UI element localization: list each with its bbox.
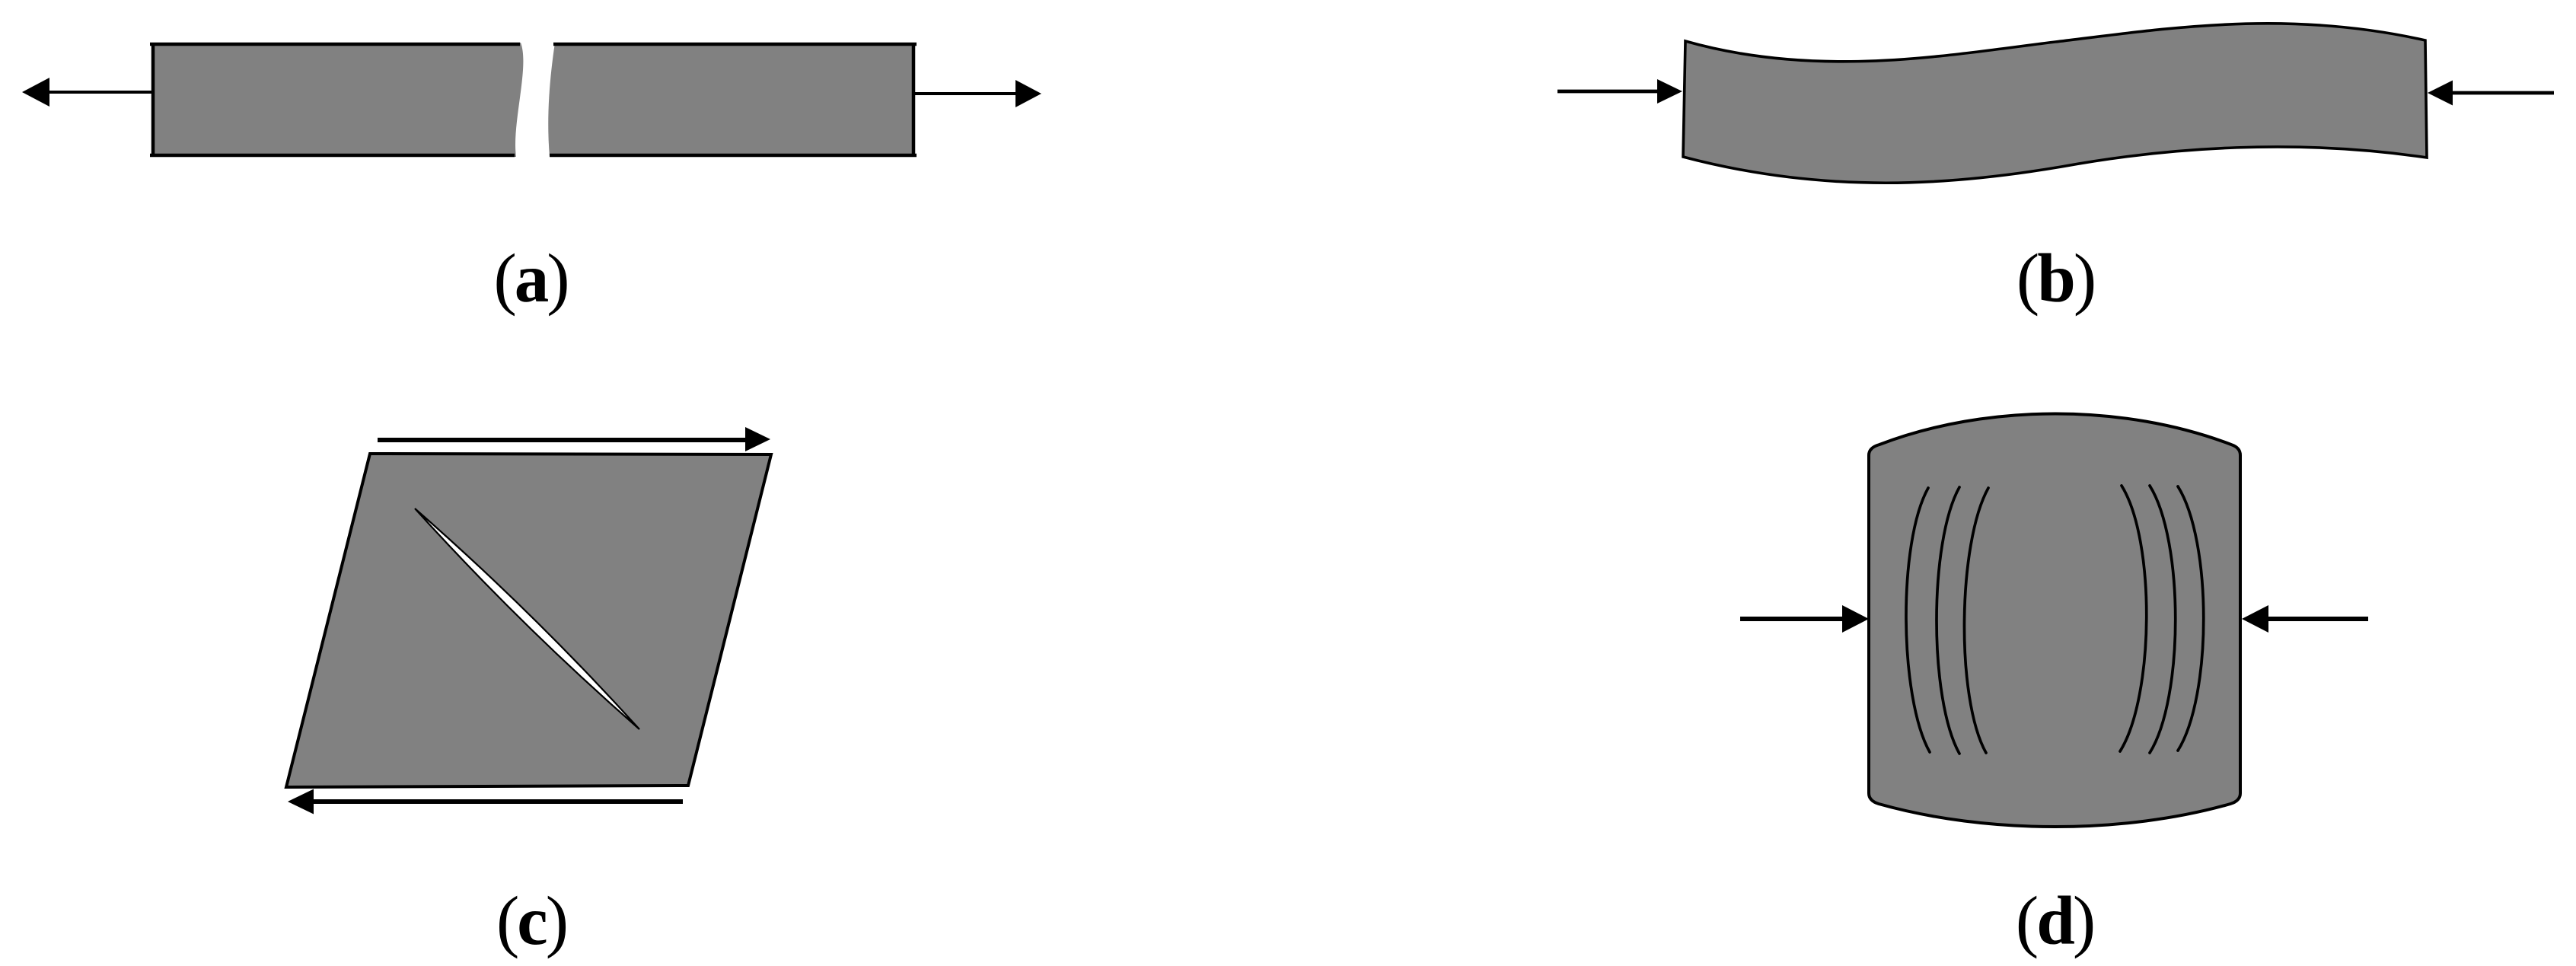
panel b: wrinkled band <box>1683 24 2427 183</box>
panel c: bottom shear arrow <box>288 789 683 815</box>
svg-text:(c): (c) <box>496 882 566 959</box>
panel c: diagonal slit crack <box>415 509 639 729</box>
panel d: right wrinkle arc 2 <box>2150 486 2176 753</box>
panel a: left tension arrow <box>22 78 153 107</box>
svg-text:(b): (b) <box>2016 240 2094 317</box>
panel b: right compression arrow <box>2428 81 2554 106</box>
panel b: left compression arrow <box>1557 79 1682 104</box>
panel d: left compression arrow <box>1740 605 1869 633</box>
panel c: top shear arrow <box>378 427 770 451</box>
panel d: right compression arrow <box>2242 605 2368 633</box>
panel d: right wrinkle arc 1 <box>2120 486 2147 751</box>
panel d: left wrinkle arc 2 <box>1937 487 1959 754</box>
panel c: sheared parallelogram <box>286 454 771 787</box>
panel a: fractured bar left piece <box>150 43 523 157</box>
svg-text:(a): (a) <box>493 240 567 317</box>
panel d: compressed barrel block <box>1869 414 2240 827</box>
panel d: left wrinkle arc 3 <box>1964 488 1988 753</box>
panel a: fractured bar right piece <box>548 43 917 157</box>
panel a: right tension arrow <box>913 80 1041 107</box>
svg-text:(d): (d) <box>2016 882 2093 959</box>
panel d: left wrinkle arc 1 <box>1906 488 1930 752</box>
panel d: right wrinkle arc 3 <box>2178 486 2204 751</box>
